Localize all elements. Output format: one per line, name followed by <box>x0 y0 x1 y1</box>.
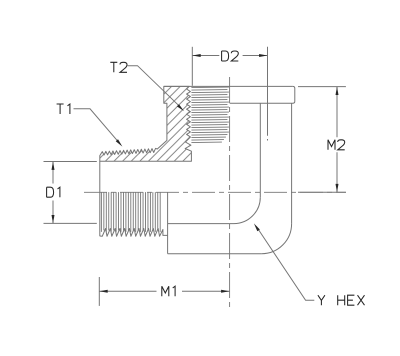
dimension M2 <box>298 87 346 193</box>
inner bore corner arc <box>234 197 261 223</box>
horizontal centerline <box>84 191 346 193</box>
flange right edge <box>230 86 295 103</box>
male thread flank lines (external view) <box>101 192 160 232</box>
male bore bottom line <box>168 223 234 225</box>
label T1 <box>57 104 70 114</box>
label D1 <box>47 187 60 197</box>
female port internal thread lines <box>191 87 229 143</box>
label T2 <box>110 62 127 72</box>
leader T1 <box>74 109 120 143</box>
male bottom thread profile and neck <box>100 229 168 237</box>
sectioned wall of female port and male end (hatched) <box>100 86 192 161</box>
body right edge <box>291 103 293 223</box>
dimension M1 <box>99 277 229 306</box>
vertical centerline <box>229 77 231 308</box>
label M2 <box>328 140 345 150</box>
label Y HEX <box>318 295 365 305</box>
flange top edge <box>164 85 293 87</box>
body left edge below centerline <box>167 192 169 254</box>
outer corner arc <box>262 224 292 254</box>
male end face <box>99 161 101 236</box>
body bottom edge <box>168 253 262 255</box>
leader Y HEX <box>256 226 314 300</box>
label D2 <box>222 51 239 61</box>
dimension D2 <box>192 47 267 141</box>
leader T2 <box>128 66 182 108</box>
dimension D1 <box>44 162 97 224</box>
label M1 <box>162 286 175 296</box>
hex inner edge right <box>259 103 261 197</box>
